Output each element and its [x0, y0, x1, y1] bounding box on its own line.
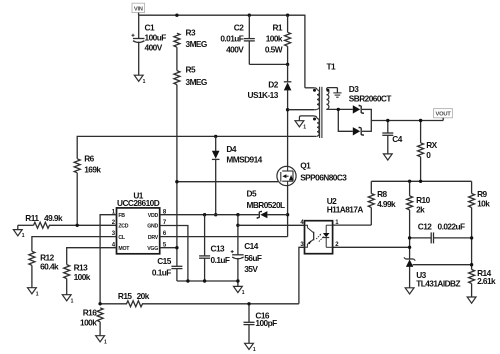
svg-text:R15: R15 — [118, 291, 133, 301]
junction C12-R9 — [470, 236, 473, 239]
svg-text:FB: FB — [118, 213, 125, 219]
svg-text:R11: R11 — [25, 213, 39, 223]
capacitor C13 — [199, 215, 230, 281]
svg-text:R1: R1 — [272, 22, 282, 32]
junction rail-R1 — [286, 14, 289, 17]
wire D2-Q1 drain — [287, 110, 289, 167]
svg-text:Q1: Q1 — [300, 161, 311, 171]
svg-text:100pF: 100pF — [255, 318, 277, 328]
transformer T1 aux winding — [216, 116, 320, 136]
wire divider rail — [371, 180, 471, 182]
diode D3b — [353, 127, 372, 136]
svg-text:35V: 35V — [244, 264, 258, 274]
junction VOUT-RX — [419, 119, 422, 122]
svg-text:4.99k: 4.99k — [377, 199, 396, 209]
wire gate row — [177, 181, 278, 183]
svg-text:C4: C4 — [392, 134, 402, 144]
svg-text:R6: R6 — [84, 154, 94, 164]
svg-text:100uF: 100uF — [145, 32, 167, 42]
wire FB pin1 — [100, 215, 116, 304]
junction rail-C13 — [203, 279, 206, 282]
wire R8 to U2 pin1 — [333, 224, 372, 226]
transformer T1 secondary winding — [327, 88, 353, 110]
junction R1-C2-D2 — [286, 63, 289, 66]
svg-text:R8: R8 — [377, 189, 387, 199]
diode D5 — [247, 188, 288, 218]
U2 pin numbers — [300, 220, 339, 248]
wire U3 ref — [413, 264, 472, 266]
svg-text:C2: C2 — [234, 22, 244, 32]
capacitor C12 — [410, 222, 472, 244]
T1 aux phasing dot — [313, 118, 316, 121]
svg-text:D2: D2 — [268, 79, 278, 89]
svg-text:0.01uF: 0.01uF — [220, 33, 243, 43]
T1 primary phasing dot — [313, 89, 316, 92]
wire secondary to D3 lower — [338, 109, 353, 131]
junction rail-C14 — [236, 279, 239, 282]
svg-text:MBR0520L: MBR0520L — [247, 200, 286, 210]
capacitor C14 — [231, 215, 262, 287]
svg-text:CL: CL — [118, 235, 125, 241]
svg-text:0.1uF: 0.1uF — [152, 268, 171, 278]
diode D4 — [212, 136, 263, 214]
svg-text:DRV: DRV — [148, 235, 159, 241]
wire ZCD pin2 — [49, 224, 117, 226]
svg-text:R9: R9 — [477, 189, 487, 199]
ground (C14) — [234, 286, 245, 296]
svg-text:20k: 20k — [137, 291, 150, 301]
wire U2 pin4 row — [238, 224, 305, 226]
junction C14-U2pin4 — [236, 224, 239, 227]
svg-text:0.022uF: 0.022uF — [438, 222, 466, 232]
ground (C1) — [134, 75, 145, 85]
svg-text:VGG: VGG — [147, 246, 158, 252]
svg-text:GND: GND — [147, 224, 158, 230]
wire R3-R5 — [176, 47, 178, 70]
junction VGG-R5col — [175, 246, 178, 249]
ground (T1 aux) — [295, 121, 306, 131]
svg-text:C13: C13 — [211, 244, 226, 254]
svg-text:D5: D5 — [247, 188, 257, 198]
svg-text:T1: T1 — [327, 61, 337, 71]
junction rail-GNDcol — [186, 279, 189, 282]
ground (C4) — [383, 154, 392, 160]
resistor R11 — [18, 213, 63, 230]
U1 pin numbers — [112, 209, 167, 248]
shunt regulator U3 — [404, 257, 461, 288]
wire Q1 source column — [287, 186, 289, 237]
net label VIN — [132, 3, 145, 15]
IC U1 box — [117, 190, 160, 253]
net label VOUT — [434, 109, 453, 121]
svg-text:100k: 100k — [266, 33, 283, 43]
svg-text:400V: 400V — [226, 44, 244, 54]
T1 secondary phasing dot — [326, 89, 329, 92]
svg-text:0.1uF: 0.1uF — [211, 255, 230, 265]
svg-text:VIN: VIN — [134, 6, 143, 12]
junction secondary-D3 — [337, 108, 340, 111]
svg-text:100k: 100k — [74, 272, 91, 282]
resistor R8 — [368, 181, 396, 225]
svg-text:169k: 169k — [84, 165, 101, 175]
svg-text:100k: 100k — [80, 317, 97, 327]
junction VDD-C13 — [203, 213, 206, 216]
svg-text:C1: C1 — [145, 22, 155, 32]
resistor R3 — [174, 28, 207, 49]
junction rail-RX — [419, 180, 422, 183]
junction R10-C12 — [408, 236, 411, 239]
capacitor C15 — [152, 256, 183, 281]
svg-text:R3: R3 — [186, 28, 196, 38]
svg-text:R5: R5 — [186, 65, 196, 75]
wire VIN top rail — [139, 15, 305, 88]
wire ground rail — [177, 280, 238, 282]
wire VGG pin5 — [160, 247, 177, 249]
junction pin2-U3 — [408, 246, 411, 249]
svg-text:R10: R10 — [416, 195, 431, 205]
ground (R13) — [62, 295, 73, 305]
svg-text:60.4k: 60.4k — [40, 262, 59, 272]
diode D3a — [353, 105, 372, 114]
junction R5-gate — [175, 180, 178, 183]
svg-text:SBR2060CT: SBR2060CT — [349, 94, 392, 104]
svg-text:C15: C15 — [157, 256, 172, 266]
transformer T1 core — [320, 87, 322, 138]
capacitor C1 — [132, 15, 167, 75]
junction primary-D2 — [286, 108, 289, 111]
svg-text:SPP06N80C3: SPP06N80C3 — [300, 172, 347, 182]
junction FB-R15-R16 — [98, 302, 101, 305]
diode D2 — [248, 64, 292, 109]
ground (R16) — [96, 336, 107, 346]
svg-text:MMSD914: MMSD914 — [226, 154, 262, 164]
wire DRV pin6 — [160, 236, 288, 238]
svg-text:0.5W: 0.5W — [265, 44, 283, 54]
capacitor C16 — [244, 304, 278, 344]
svg-text:400V: 400V — [145, 43, 163, 53]
junction R6-ZCD — [76, 224, 79, 227]
wire secondary top to earth — [336, 88, 338, 93]
wire MOT pin4 — [67, 248, 117, 265]
junction R15-C16 — [247, 302, 250, 305]
D3 labels — [349, 84, 392, 104]
junction rail-C2 — [248, 14, 251, 17]
junction rail-R10 — [408, 180, 411, 183]
junction rail-R3 — [175, 14, 178, 17]
earth ground (secondary) — [333, 93, 341, 97]
resistor RX — [418, 121, 438, 182]
wire U2 pin2 feedback — [333, 246, 410, 248]
svg-text:2.61k: 2.61k — [477, 276, 496, 286]
svg-text:3MEG: 3MEG — [186, 39, 207, 49]
ground (R12) — [28, 288, 39, 298]
svg-text:H11A817A: H11A817A — [327, 205, 364, 215]
resistor R15 — [118, 291, 150, 307]
wire VOUT row — [371, 120, 443, 122]
wire R15 row — [100, 303, 299, 305]
svg-text:C14: C14 — [244, 241, 259, 251]
ground (U3) — [405, 288, 414, 294]
svg-text:UCC28610D: UCC28610D — [117, 198, 160, 208]
svg-text:VDD: VDD — [148, 213, 159, 219]
transformer T1 primary winding — [288, 88, 320, 110]
svg-text:RX: RX — [426, 140, 437, 150]
transformer T1 label — [327, 61, 337, 71]
svg-text:3MEG: 3MEG — [186, 77, 207, 87]
resistor R1 — [265, 15, 291, 64]
wire VDD row / D5 row — [160, 214, 259, 216]
resistor R5 — [174, 65, 207, 87]
svg-text:D4: D4 — [226, 144, 236, 154]
junction R6-aux-D4 — [214, 135, 217, 138]
resistor R9 — [469, 181, 491, 269]
resistor R16 — [80, 308, 103, 336]
resistor R13 — [64, 263, 91, 295]
U1 pin names — [118, 213, 158, 252]
transistor Q1 — [277, 161, 347, 186]
svg-text:MOT: MOT — [118, 246, 130, 252]
U2 internals — [305, 225, 333, 247]
junction VDD-C14 — [236, 213, 239, 216]
capacitor C4 — [382, 121, 402, 154]
svg-text:D3: D3 — [349, 84, 359, 94]
ground (R11) — [13, 230, 24, 240]
junction D4-VDD — [214, 213, 217, 216]
resistor R12 — [29, 251, 59, 287]
junction VOUT-C4 — [386, 119, 389, 122]
svg-text:TL431AIDBZ: TL431AIDBZ — [416, 279, 460, 289]
svg-text:ZCD: ZCD — [118, 224, 128, 230]
svg-text:R16: R16 — [83, 308, 98, 318]
IC U2 box — [305, 196, 364, 254]
resistor R10 — [407, 181, 431, 259]
wire CL pin3 — [32, 237, 117, 252]
svg-text:56uF: 56uF — [244, 253, 262, 263]
wire GND pin7 — [160, 226, 188, 282]
junction ref-R14 — [470, 263, 473, 266]
junction Q1 source-D5 — [286, 213, 289, 216]
svg-text:C12: C12 — [418, 222, 433, 232]
svg-text:49.9k: 49.9k — [44, 213, 63, 223]
ground (R14) — [467, 297, 476, 303]
svg-text:10k: 10k — [477, 199, 490, 209]
svg-text:US1K-13: US1K-13 — [248, 90, 279, 100]
wire D3 output bus — [370, 109, 372, 132]
svg-text:VOUT: VOUT — [436, 112, 452, 118]
ground (C16) — [245, 343, 256, 353]
capacitor C2 — [220, 15, 254, 64]
svg-text:2k: 2k — [416, 205, 425, 215]
resistor R6 — [74, 136, 216, 225]
wire R5 column down to VGG/C15 — [176, 85, 178, 267]
resistor R14 — [469, 268, 496, 297]
wire U2 pin3 — [299, 247, 305, 303]
wire C2 bottom — [249, 63, 287, 65]
